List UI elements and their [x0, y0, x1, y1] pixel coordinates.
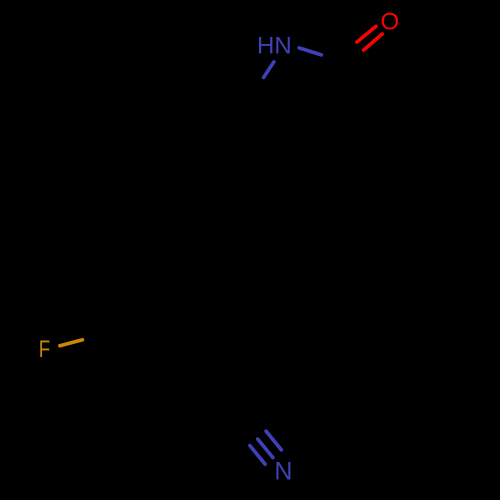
svg-text:N: N [274, 457, 292, 485]
svg-text:O: O [381, 8, 400, 35]
svg-text:HN: HN [257, 33, 292, 60]
svg-text:F: F [39, 336, 50, 363]
